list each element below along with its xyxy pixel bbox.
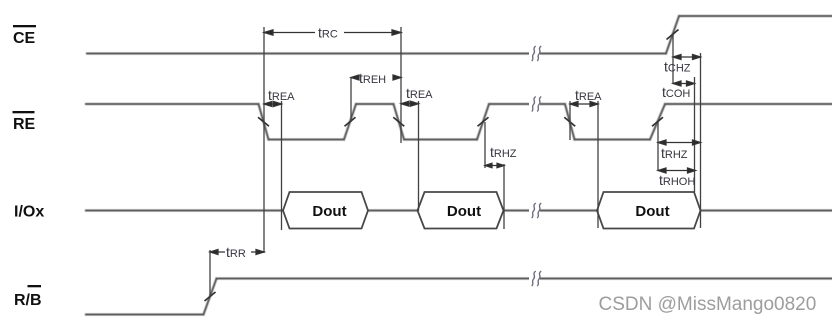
tick on RE rising edge 2 (478, 117, 489, 126)
wire R/B high level (217, 278, 832, 280)
dimension line tRC left / tRR right at x=264 (263, 27, 265, 253)
wire RE high segment 2 (356, 103, 394, 105)
wire R/B low level (86, 314, 204, 316)
dimension line tREA3 left at x=570 (569, 101, 571, 140)
tick on CE rising edge (667, 30, 679, 40)
svg-text:RE: RE (13, 116, 36, 133)
wire RE high segment 1 (86, 103, 259, 105)
wire RE high segment 3 (489, 103, 565, 105)
svg-text:tRR: tRR (226, 244, 246, 260)
svg-text:tRHZ: tRHZ (490, 144, 517, 160)
wire I/Ox bus line 2 (368, 210, 418, 212)
wire RE rising edge 3 (650, 104, 665, 140)
wire RE low segment 3 (575, 139, 651, 141)
signal label CE with overline (13, 25, 36, 47)
dimension arrow tREH (351, 75, 401, 80)
dimension arrow tREA2 (401, 101, 419, 106)
tick on RE falling edge 1 (258, 117, 269, 126)
dimension line tRHZ1 left at x=485 (484, 122, 486, 168)
data bus Dout hexagon 3 (597, 192, 701, 229)
svg-text:tREA: tREA (406, 85, 433, 101)
tick on RE falling edge 3 (564, 117, 575, 126)
dimension line tREA2 right at x=418.5 (418, 101, 420, 211)
dimension line tRC right at x=401 (400, 27, 402, 143)
dimension arrow tCHZ (673, 55, 701, 60)
dimension line tCHZ/tCOH left at x=673 (672, 34, 674, 84)
wire RE rising edge 2 (477, 104, 489, 140)
svg-text:CE: CE (13, 30, 36, 47)
dimension line tCHZ/tRHZ right at x=700.5 (700, 53, 702, 228)
wire RE falling edge 3 (565, 104, 575, 140)
dimension line tRHZ2/tRHOH left at x=658 (657, 122, 659, 171)
svg-text:R/B: R/B (14, 292, 42, 309)
dimension line tREH left at x=351 (350, 77, 352, 122)
svg-text:tREA: tREA (575, 87, 602, 103)
svg-text:I/Ox: I/Ox (14, 204, 44, 221)
svg-text:tCHZ: tCHZ (664, 59, 691, 75)
wire RE low segment 2 (404, 139, 477, 141)
dimension arrow tRHOH (658, 168, 696, 173)
wire RE falling edge 1 (259, 104, 269, 140)
dimension line tREA1 right at x=281.5 (281, 101, 283, 230)
data bus Dout hexagon 2 (418, 192, 504, 229)
dimension line tRHZ1 right at x=504 (503, 164, 505, 229)
break symbol on R/B line (529, 271, 541, 286)
dimension arrow tCOH (673, 81, 695, 86)
tick on RE falling edge 2 (393, 117, 404, 126)
dimension arrow tRHZ2 (658, 140, 701, 145)
wire RE falling edge 2 (394, 104, 405, 140)
dimension line tCOH/tRHOH right at x=694.5 (694, 77, 696, 192)
wire I/Ox bus line 1 (86, 210, 283, 212)
wire CE low level (87, 53, 666, 55)
dimension line tRR left at x=210 (209, 250, 211, 297)
svg-text:Dout: Dout (447, 203, 481, 220)
tick on RE rising edge 1 (345, 117, 356, 126)
svg-text:tREH: tREH (359, 70, 386, 86)
wire RE low segment 1 (269, 139, 345, 141)
dimension arrow tRHZ1 (485, 163, 504, 168)
wire CE high level (679, 15, 832, 17)
svg-text:tRHOH: tRHOH (659, 172, 695, 188)
svg-text:tREA: tREA (268, 87, 295, 103)
svg-text:CSDN @MissMango0820: CSDN @MissMango0820 (599, 294, 817, 315)
tick on R/B rising edge (205, 292, 216, 301)
data bus Dout hexagon 1 (283, 192, 368, 229)
wire R/B rising edge (204, 279, 217, 315)
dimension line tREA3 right at x=598 (597, 101, 599, 228)
dimension arrow tREA1 (264, 102, 282, 107)
wire I/Ox bus line 4 (701, 210, 832, 212)
dimension arrow tRR (210, 250, 264, 255)
svg-text:Dout: Dout (312, 203, 346, 220)
wire I/Ox bus line 3 (504, 210, 598, 212)
signal label RE with overline (13, 111, 36, 133)
signal label R/B with overline over B (14, 285, 42, 309)
wire RE high segment 4 (665, 103, 832, 105)
dimension arrow tREA3 (570, 102, 598, 107)
wire RE rising edge 1 (344, 104, 356, 140)
wire CE rising edge (666, 16, 679, 54)
svg-text:tRC: tRC (318, 25, 338, 41)
svg-text:tRHZ: tRHZ (661, 145, 688, 161)
dimension arrow tRC (264, 30, 401, 35)
svg-text:Dout: Dout (635, 203, 669, 220)
break symbol on RE line (529, 97, 541, 112)
tick on RE rising edge 3 (652, 117, 663, 126)
break symbol on I/Ox line (529, 203, 541, 218)
break symbol on CE line (529, 46, 541, 61)
